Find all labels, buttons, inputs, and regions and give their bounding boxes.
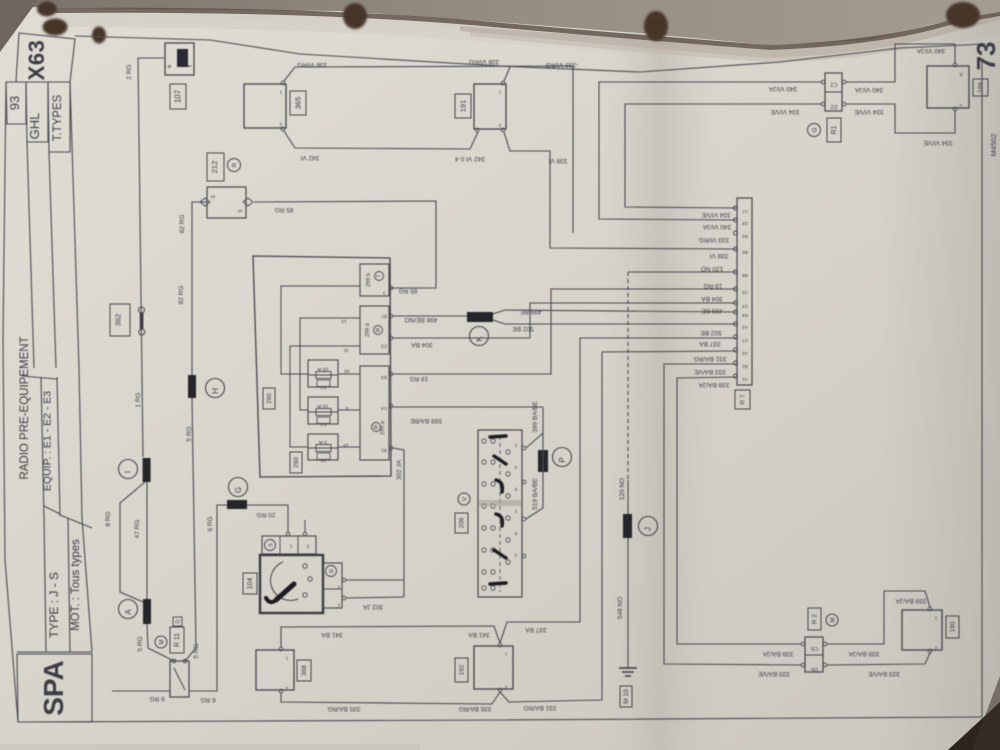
- svg-text:B7: B7: [381, 314, 387, 319]
- wire 519 BA/BE: [526, 433, 543, 519]
- wire 339 BA/JA right: [827, 591, 930, 644]
- svg-text:338 VI: 338 VI: [709, 252, 728, 259]
- label 192: [455, 658, 468, 682]
- svg-text:F9: F9: [320, 457, 326, 463]
- svg-text:85 RG: 85 RG: [275, 206, 294, 213]
- wire 333 BA/VE right: [827, 653, 930, 665]
- svg-text:B: B: [959, 72, 962, 77]
- labels 260: [263, 388, 302, 473]
- svg-text:C2: C2: [381, 344, 387, 349]
- svg-text:M: M: [374, 425, 380, 429]
- fuse F9 5A: [308, 434, 338, 463]
- label 104: [243, 573, 257, 594]
- label R1: [808, 118, 842, 142]
- wire 337 BA riser: [500, 338, 736, 643]
- node P: [553, 448, 572, 467]
- svg-text:498 BE/NO: 498 BE/NO: [405, 316, 438, 323]
- svg-text:85 RG: 85 RG: [399, 287, 418, 294]
- svg-text:334 VI/VE: 334 VI/VE: [701, 211, 731, 218]
- wire 302 JA from B1 down to ignition switch: [393, 448, 404, 597]
- box 192: [474, 643, 513, 692]
- ignition switch body 104: [260, 555, 323, 613]
- svg-text:399 BA/BE: 399 BA/BE: [532, 400, 539, 432]
- svg-text:342 VI 0 4: 342 VI 0 4: [455, 155, 485, 162]
- svg-text:J: J: [644, 527, 653, 531]
- svg-text:47 RG: 47 RG: [134, 520, 141, 539]
- svg-text:RADIO PRE-EQUIPEMENT: RADIO PRE-EQUIPEMENT: [19, 336, 31, 479]
- svg-text:82 RG: 82 RG: [178, 286, 185, 305]
- T.TYPES cell: [48, 82, 70, 152]
- label 368: [297, 660, 311, 681]
- UCH internal wires: [281, 286, 360, 374]
- splice P bar: [538, 450, 548, 472]
- label 365: [290, 91, 306, 115]
- splice A bar: [143, 599, 151, 624]
- wire 2 RG battery feed: [138, 58, 165, 457]
- svg-text:5 RG: 5 RG: [193, 643, 200, 658]
- wire 502 BE: [493, 320, 736, 324]
- svg-text:6 RG: 6 RG: [200, 696, 215, 703]
- label 209: [455, 493, 470, 533]
- svg-text:331 BA/RG: 331 BA/RG: [694, 355, 727, 362]
- svg-text:5 RG: 5 RG: [186, 426, 193, 441]
- svg-text:B4: B4: [742, 234, 748, 239]
- relay 299 d: [341, 306, 389, 354]
- switch right connector: [323, 563, 346, 608]
- frame right edge: [981, 60, 983, 717]
- svg-text:209: 209: [459, 517, 466, 528]
- svg-text:A: A: [959, 103, 962, 108]
- node G: [229, 478, 248, 497]
- svg-text:260: 260: [266, 393, 273, 404]
- wire 82 RG from connector 212: [192, 202, 207, 375]
- svg-text:+: +: [164, 64, 174, 69]
- fuse F4 10A: [308, 397, 338, 427]
- wire 599 BA/BE: [393, 406, 543, 408]
- svg-text:R1: R1: [831, 125, 838, 134]
- svg-text:G: G: [812, 127, 819, 132]
- svg-text:R 2: R 2: [812, 614, 819, 625]
- splice K bar: [467, 312, 493, 322]
- wire 333 BA/VE left: [664, 364, 801, 665]
- svg-text:C7: C7: [742, 338, 748, 343]
- svg-text:T.TYPES: T.TYPES: [52, 94, 64, 141]
- speaker box 365: [244, 81, 286, 131]
- svg-text:299 d: 299 d: [365, 323, 371, 337]
- svg-text:C2: C2: [830, 81, 837, 87]
- svg-text:P: P: [558, 457, 567, 462]
- svg-text:C4: C4: [381, 406, 387, 411]
- svg-text:B6: B6: [742, 250, 748, 255]
- wire 5 RG right branch: [185, 398, 196, 661]
- node K: [470, 327, 489, 346]
- svg-text:19 RG: 19 RG: [704, 282, 723, 289]
- svg-text:D: D: [176, 619, 182, 623]
- sidebar long lines: [27, 142, 34, 368]
- connector strip 299 a: [360, 366, 389, 460]
- svg-text:93: 93: [7, 96, 22, 110]
- svg-text:334 VI/VE: 334 VI/VE: [854, 108, 884, 115]
- svg-text:M: M: [376, 328, 382, 332]
- svg-text:212: 212: [210, 161, 219, 174]
- wire 336 VI/RG top bus: [284, 66, 573, 233]
- svg-text:331 BA/RG: 331 BA/RG: [524, 704, 557, 711]
- svg-text:82 RG: 82 RG: [179, 215, 186, 234]
- svg-text:A1: A1: [742, 377, 748, 382]
- svg-text:339 BA/JA: 339 BA/JA: [762, 650, 793, 657]
- X63 box: [16, 33, 75, 82]
- svg-text:339 BA/JA: 339 BA/JA: [895, 597, 926, 604]
- svg-text:340 VI/JA: 340 VI/JA: [702, 223, 731, 230]
- wire 339 BA/JA left: [677, 377, 801, 644]
- svg-text:5 RG: 5 RG: [137, 636, 144, 651]
- R7 pin wire labels: [693, 211, 731, 388]
- wire 340 VI/JA left: [599, 82, 822, 220]
- wire 331 BA/RG riser: [500, 351, 736, 702]
- svg-text:S: S: [269, 543, 275, 547]
- svg-text:R: R: [330, 569, 336, 573]
- wire 304 BA: [393, 303, 736, 338]
- top page-edge soft shadow: [55, 13, 1000, 64]
- svg-text:1 RG: 1 RG: [135, 392, 142, 407]
- node A: [119, 600, 138, 619]
- frame outer left edge: [3, 82, 18, 722]
- svg-text:M 10: M 10: [623, 689, 630, 704]
- wire 342 VI: [284, 131, 478, 149]
- svg-text:TYPE : J - S: TYPE : J - S: [47, 572, 61, 638]
- svg-text:A7: A7: [742, 209, 748, 214]
- svg-text:D5: D5: [811, 666, 818, 672]
- svg-text:B4: B4: [742, 313, 748, 318]
- svg-text:21: 21: [343, 348, 349, 353]
- wire 498 BE/NO to splice K: [393, 315, 467, 317]
- bottom-right dark corner: [948, 702, 1000, 750]
- wire 334 VI/VE right: [846, 104, 955, 133]
- label 191: [455, 94, 471, 118]
- svg-text:18: 18: [343, 442, 349, 448]
- svg-text:120 NO: 120 NO: [619, 478, 626, 500]
- TYPE / MOT group: [17, 651, 92, 653]
- wire 499 BE: [493, 310, 736, 314]
- box 190: [902, 607, 942, 653]
- binding blobs: [37, 2, 980, 44]
- speaker box 191: [474, 81, 506, 132]
- svg-text:F7: F7: [320, 384, 326, 390]
- wire 85 RG: [254, 201, 436, 288]
- label R 7: [735, 390, 750, 409]
- svg-text:260: 260: [293, 457, 300, 468]
- battery 107: [164, 43, 194, 75]
- node J: [639, 517, 658, 536]
- UCH output pins: [389, 286, 393, 450]
- svg-text:342 VI: 342 VI: [300, 154, 319, 161]
- RADIO / EQUIP group: [22, 376, 57, 379]
- bottom edge shade: [0, 744, 420, 750]
- svg-text:334 VI/VE: 334 VI/VE: [923, 139, 953, 146]
- svg-text:192: 192: [459, 664, 466, 675]
- splice J bar: [623, 514, 632, 538]
- svg-text:368: 368: [301, 665, 308, 676]
- svg-text:-333 VI/RG: -333 VI/RG: [546, 61, 579, 68]
- svg-text:336 VI/RG: 336 VI/RG: [297, 61, 327, 68]
- svg-text:9: 9: [345, 405, 348, 411]
- svg-text:302 JA: 302 JA: [396, 459, 403, 480]
- svg-text:341 BA: 341 BA: [321, 631, 343, 638]
- svg-text:333 BA/VE: 333 BA/VE: [693, 368, 725, 375]
- svg-text:R 11: R 11: [174, 633, 181, 647]
- svg-text:341 BA: 341 BA: [468, 631, 490, 638]
- wire from switch pin 3: [346, 579, 404, 581]
- wire 19 RG: [393, 289, 736, 374]
- svg-text:SPA: SPA: [38, 660, 69, 716]
- svg-text:C5: C5: [811, 645, 818, 651]
- svg-text:337 BA: 337 BA: [525, 626, 547, 633]
- svg-text:339 BA/JA: 339 BA/JA: [848, 650, 879, 657]
- svg-text:5: 5: [238, 209, 244, 212]
- svg-text:A2: A2: [742, 325, 748, 330]
- wire 6 RG right to G: [189, 505, 227, 691]
- svg-text:335 BA/RG: 335 BA/RG: [459, 705, 492, 712]
- svg-text:T: T: [377, 274, 383, 277]
- switch top connector: [262, 520, 316, 554]
- fuse F7 20A: [308, 360, 338, 390]
- wire 20 RG to ignition switch: [247, 505, 288, 533]
- svg-text:K: K: [475, 336, 484, 342]
- junction connector R2 (C5/D5): [801, 637, 827, 672]
- svg-text:A2: A2: [742, 351, 748, 356]
- svg-text:191: 191: [459, 100, 468, 113]
- node H: [206, 379, 225, 398]
- relay 299 b: [360, 264, 389, 296]
- wire 341 BA: [281, 626, 500, 647]
- svg-text:335 BA/RG: 335 BA/RG: [328, 705, 361, 712]
- box 368: [256, 647, 294, 693]
- svg-text:188: 188: [978, 82, 985, 93]
- GHL cell: [26, 82, 48, 142]
- svg-text:F4: F4: [320, 421, 326, 427]
- svg-text:299 b: 299 b: [366, 273, 372, 287]
- frame top edge: [75, 36, 985, 72]
- wire 120 NO dashed: [628, 271, 736, 273]
- wire 6 RG left out: [112, 690, 170, 692]
- svg-text:R: R: [232, 162, 239, 167]
- splice G bar: [227, 500, 247, 509]
- relay R11: [170, 659, 189, 697]
- svg-text:299 a: 299 a: [380, 420, 386, 435]
- wire 302 JA from switch pin 1: [346, 597, 404, 598]
- svg-text:304 BA: 304 BA: [411, 341, 433, 348]
- svg-text:304 BA: 304 BA: [701, 295, 723, 302]
- wire 5 RG to R11: [147, 624, 174, 661]
- wire 340 VI/JA right: [846, 44, 955, 82]
- svg-text:302 JA: 302 JA: [362, 603, 383, 610]
- svg-text:499 BE: 499 BE: [701, 307, 723, 314]
- svg-text:20 RG: 20 RG: [257, 511, 276, 518]
- svg-text:B3: B3: [381, 375, 387, 380]
- node I: [119, 460, 138, 479]
- svg-text:365: 365: [294, 97, 303, 110]
- label 212: [207, 153, 241, 181]
- wire 399 BA/BE: [526, 407, 543, 448]
- svg-text:190: 190: [950, 621, 957, 632]
- svg-text:6 RG: 6 RG: [207, 516, 214, 531]
- svg-text:22: 22: [344, 368, 350, 374]
- svg-text:3: 3: [211, 195, 217, 198]
- svg-text:73: 73: [971, 42, 1000, 71]
- svg-text:337 BA: 337 BA: [699, 340, 721, 347]
- svg-text:19 RG: 19 RG: [410, 375, 429, 382]
- ground M10: [619, 668, 637, 676]
- svg-text:120 NO: 120 NO: [701, 265, 723, 272]
- svg-text:8 RG: 8 RG: [105, 511, 112, 526]
- svg-text:340 VI/JA: 340 VI/JA: [916, 47, 945, 54]
- svg-text:333 BA/VE: 333 BA/VE: [757, 670, 789, 677]
- svg-text:V: V: [463, 497, 469, 501]
- svg-text:I: I: [124, 471, 133, 473]
- wire 338 VI: [504, 132, 736, 249]
- label 188: [973, 79, 988, 96]
- svg-text:104: 104: [247, 578, 254, 590]
- svg-text:339 BA/JA: 339 BA/JA: [698, 381, 729, 388]
- svg-text:C5: C5: [742, 290, 748, 295]
- svg-text:GHL: GHL: [27, 113, 42, 140]
- SPA box: [17, 654, 92, 722]
- svg-text:C4: C4: [742, 304, 748, 309]
- frame bottom edge: [18, 717, 982, 722]
- 93 cell: [6, 82, 26, 124]
- label R 11: [155, 617, 184, 653]
- svg-text:338 VI/RG: 338 VI/RG: [469, 58, 499, 65]
- svg-text:R 7: R 7: [740, 394, 747, 405]
- splice H bar: [188, 375, 196, 398]
- svg-text:C8: C8: [742, 221, 748, 226]
- svg-text:499 BE: 499 BE: [520, 308, 542, 315]
- svg-text:333 VI/RG: 333 VI/RG: [699, 236, 729, 243]
- svg-text:6 RG: 6 RG: [149, 695, 164, 702]
- svg-text:599 BA/BE: 599 BA/BE: [409, 417, 441, 424]
- svg-text:2 RG: 2 RG: [126, 64, 133, 79]
- svg-text:B1: B1: [381, 448, 387, 453]
- svg-text:G: G: [234, 487, 243, 493]
- antenna box 188: [927, 63, 969, 111]
- svg-text:D2: D2: [830, 103, 837, 109]
- svg-text:13: 13: [341, 319, 347, 324]
- svg-text:MOT. : Tous types: MOT. : Tous types: [70, 539, 82, 631]
- svg-text:362: 362: [114, 314, 123, 327]
- svg-text:M: M: [831, 618, 837, 623]
- label R 2: [808, 608, 838, 630]
- svg-text:A: A: [124, 609, 133, 615]
- svg-text:M4502: M4502: [989, 134, 998, 157]
- svg-text:340 VI/JA: 340 VI/JA: [854, 86, 883, 93]
- svg-text:548 NO: 548 NO: [617, 597, 624, 619]
- UCH box: [253, 256, 391, 477]
- connector 362: [110, 304, 145, 336]
- svg-text:B2: B2: [742, 364, 748, 369]
- svg-text:502 BE: 502 BE: [700, 329, 722, 336]
- label 107: [170, 84, 186, 109]
- svg-text:340 VI/JA: 340 VI/JA: [768, 85, 797, 92]
- label 190: [946, 616, 959, 638]
- svg-text:X63: X63: [24, 40, 49, 81]
- crease shadow band: [600, 0, 720, 750]
- wire 8 RG branch: [120, 482, 145, 602]
- svg-text:333 BA/VE: 333 BA/VE: [867, 670, 899, 677]
- svg-text:519 BA/BE: 519 BA/BE: [532, 477, 539, 509]
- under-pages band: [460, 16, 1000, 58]
- wire 335 BA/RG: [281, 692, 500, 704]
- svg-text:B8: B8: [742, 273, 748, 278]
- wire 47 RG: [146, 482, 148, 599]
- dark spine edge line: [55, 8, 1000, 50]
- splice I bar: [143, 458, 151, 482]
- svg-text:H: H: [211, 388, 220, 394]
- wire 334 VI/VE left: [625, 104, 822, 208]
- svg-text:334 VI/VE: 334 VI/VE: [770, 108, 800, 115]
- svg-text:107: 107: [174, 89, 183, 103]
- svg-text:M: M: [160, 640, 166, 645]
- table grey at top: [0, 0, 1000, 45]
- svg-text:338 VI: 338 VI: [548, 157, 567, 164]
- svg-text:EQUIP. : E1 - E2 - E3: EQUIP. : E1 - E2 - E3: [42, 391, 54, 491]
